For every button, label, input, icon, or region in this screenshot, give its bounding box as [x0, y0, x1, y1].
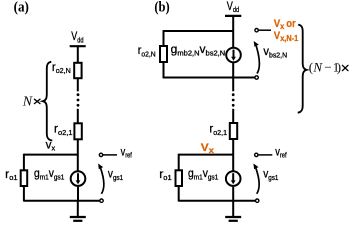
- svg-text:ro1: ro1: [159, 167, 171, 182]
- wire Vdd to current source (b): [232, 16, 234, 47]
- terminal lower-left of vbs2,N open circle (b): [255, 76, 258, 79]
- terminal vref open circle (a): [99, 153, 102, 156]
- wire dots to ro2,1 (b): [232, 109, 234, 123]
- svg-text:vref: vref: [121, 144, 133, 159]
- svg-text:vref: vref: [275, 144, 287, 159]
- voltage arrow vgs1 (a): [98, 164, 104, 194]
- brace (N-1)-times (b): [298, 25, 307, 113]
- svg-text:Vdd: Vdd: [227, 0, 239, 14]
- svg-text:(b): (b): [154, 0, 169, 16]
- svg-text:gm1vgs1: gm1vgs1: [188, 166, 218, 181]
- svg-text:ro1: ro1: [5, 167, 17, 182]
- svg-text:): ): [337, 60, 341, 75]
- wire left branch to ro1 (a): [23, 154, 25, 171]
- svg-text:(a): (a): [14, 0, 29, 16]
- terminal vgs1- open circle (b): [256, 199, 259, 202]
- wire vx node horizontal (a): [24, 154, 78, 156]
- bottom rail wire (a): [24, 200, 100, 202]
- svg-text:ro2,N: ro2,N: [52, 60, 71, 75]
- wire ro1 to bottom rail (b): [178, 186, 180, 202]
- label (N-1)-times (b): [309, 60, 348, 75]
- wire left branch to ro1 (b): [178, 154, 180, 171]
- wire vref lead (b): [258, 154, 272, 156]
- top cell lower wire (b): [164, 77, 255, 79]
- wire top to ro2,N (b): [163, 30, 165, 46]
- resistor ro1 (b): [176, 170, 183, 186]
- wire ro1 to bottom rail (a): [23, 186, 25, 202]
- resistor ro1 (a): [21, 170, 28, 186]
- svg-text:Vdd: Vdd: [71, 29, 83, 44]
- ellipsis dots (b): [232, 93, 235, 106]
- wire current source down to dots (b): [232, 63, 234, 91]
- svg-text:vx: vx: [46, 137, 56, 152]
- svg-text:vgs1: vgs1: [263, 167, 278, 182]
- top cell upper wire (b): [164, 30, 234, 32]
- resistor ro2,N (b): [160, 46, 167, 62]
- wire current source to bottom rail (a): [77, 187, 79, 201]
- svg-text:or: or: [286, 18, 296, 30]
- voltage arrow vgs1 (b): [253, 164, 259, 194]
- wire ro2,1 down to current source (b): [232, 139, 234, 171]
- svg-text:ro2,1: ro2,1: [54, 122, 73, 137]
- svg-text:vbs2,N: vbs2,N: [263, 44, 287, 59]
- terminal vx top open circle (b): [255, 29, 258, 32]
- svg-text:Vx,N-1: Vx,N-1: [274, 30, 299, 43]
- wire ro2,N to bottom wire (b): [163, 62, 165, 78]
- lower cell top wire (b): [179, 154, 234, 156]
- svg-text:ro2,1: ro2,1: [209, 122, 227, 137]
- current source gm1vgs1 (b): [226, 171, 241, 186]
- current source gmb2,N vbs2,N (b): [226, 48, 241, 63]
- resistor ro2,1 (b): [230, 123, 237, 139]
- ground (b): [225, 201, 241, 221]
- wire vx top lead (b): [259, 29, 272, 31]
- svg-text:gm1vgs1: gm1vgs1: [34, 166, 64, 181]
- terminal vgs1- open circle (a): [100, 199, 103, 202]
- ellipsis dots (a): [77, 93, 80, 106]
- wire ro2,N to dots (a): [77, 78, 79, 91]
- svg-text:−: −: [324, 60, 331, 75]
- current source gm1vgs1 (a): [71, 171, 86, 186]
- terminal vref open circle (b): [255, 153, 258, 156]
- wire dots to ro2,1 (a): [77, 109, 79, 124]
- wire vref lead (a): [103, 154, 117, 156]
- svg-text:N: N: [312, 60, 323, 75]
- ground (a): [70, 201, 86, 221]
- svg-text:N: N: [22, 95, 33, 110]
- wire ro2,1 down through vx to current source (a): [77, 139, 79, 171]
- svg-text:Vx: Vx: [201, 142, 214, 155]
- resistor ro2,1 (a): [74, 123, 81, 139]
- wire Vdd to ro2,N (a): [77, 46, 79, 63]
- wire current source to bottom rail (b): [232, 187, 234, 201]
- Vdd supply rail bar (a): [70, 45, 86, 47]
- svg-text:vgs1: vgs1: [108, 167, 123, 182]
- brace N-times (a): [43, 62, 52, 141]
- voltage arrow vbs2,N (b): [254, 41, 260, 74]
- resistor ro2,N (a): [74, 63, 81, 78]
- bottom rail wire (b): [179, 200, 256, 202]
- Vdd supply rail bar (b): [225, 15, 241, 17]
- svg-text:ro2,N: ro2,N: [138, 43, 156, 58]
- svg-text:gmb2,Nvbs2,N: gmb2,Nvbs2,N: [171, 42, 226, 57]
